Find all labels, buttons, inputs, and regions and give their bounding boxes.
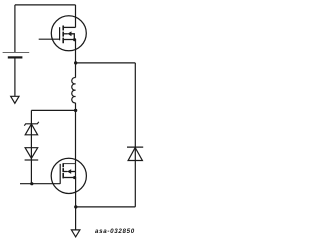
svg-text:asa-032850: asa-032850	[95, 228, 135, 235]
